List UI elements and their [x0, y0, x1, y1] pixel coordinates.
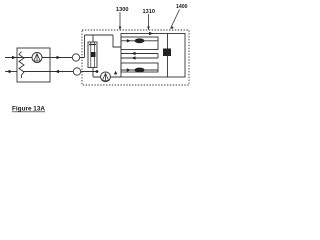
svg-text:1310: 1310 — [143, 9, 155, 15]
svg-text:1300: 1300 — [116, 7, 128, 13]
svg-text:Figure 13A: Figure 13A — [12, 106, 45, 113]
svg-text:1400: 1400 — [176, 4, 188, 10]
